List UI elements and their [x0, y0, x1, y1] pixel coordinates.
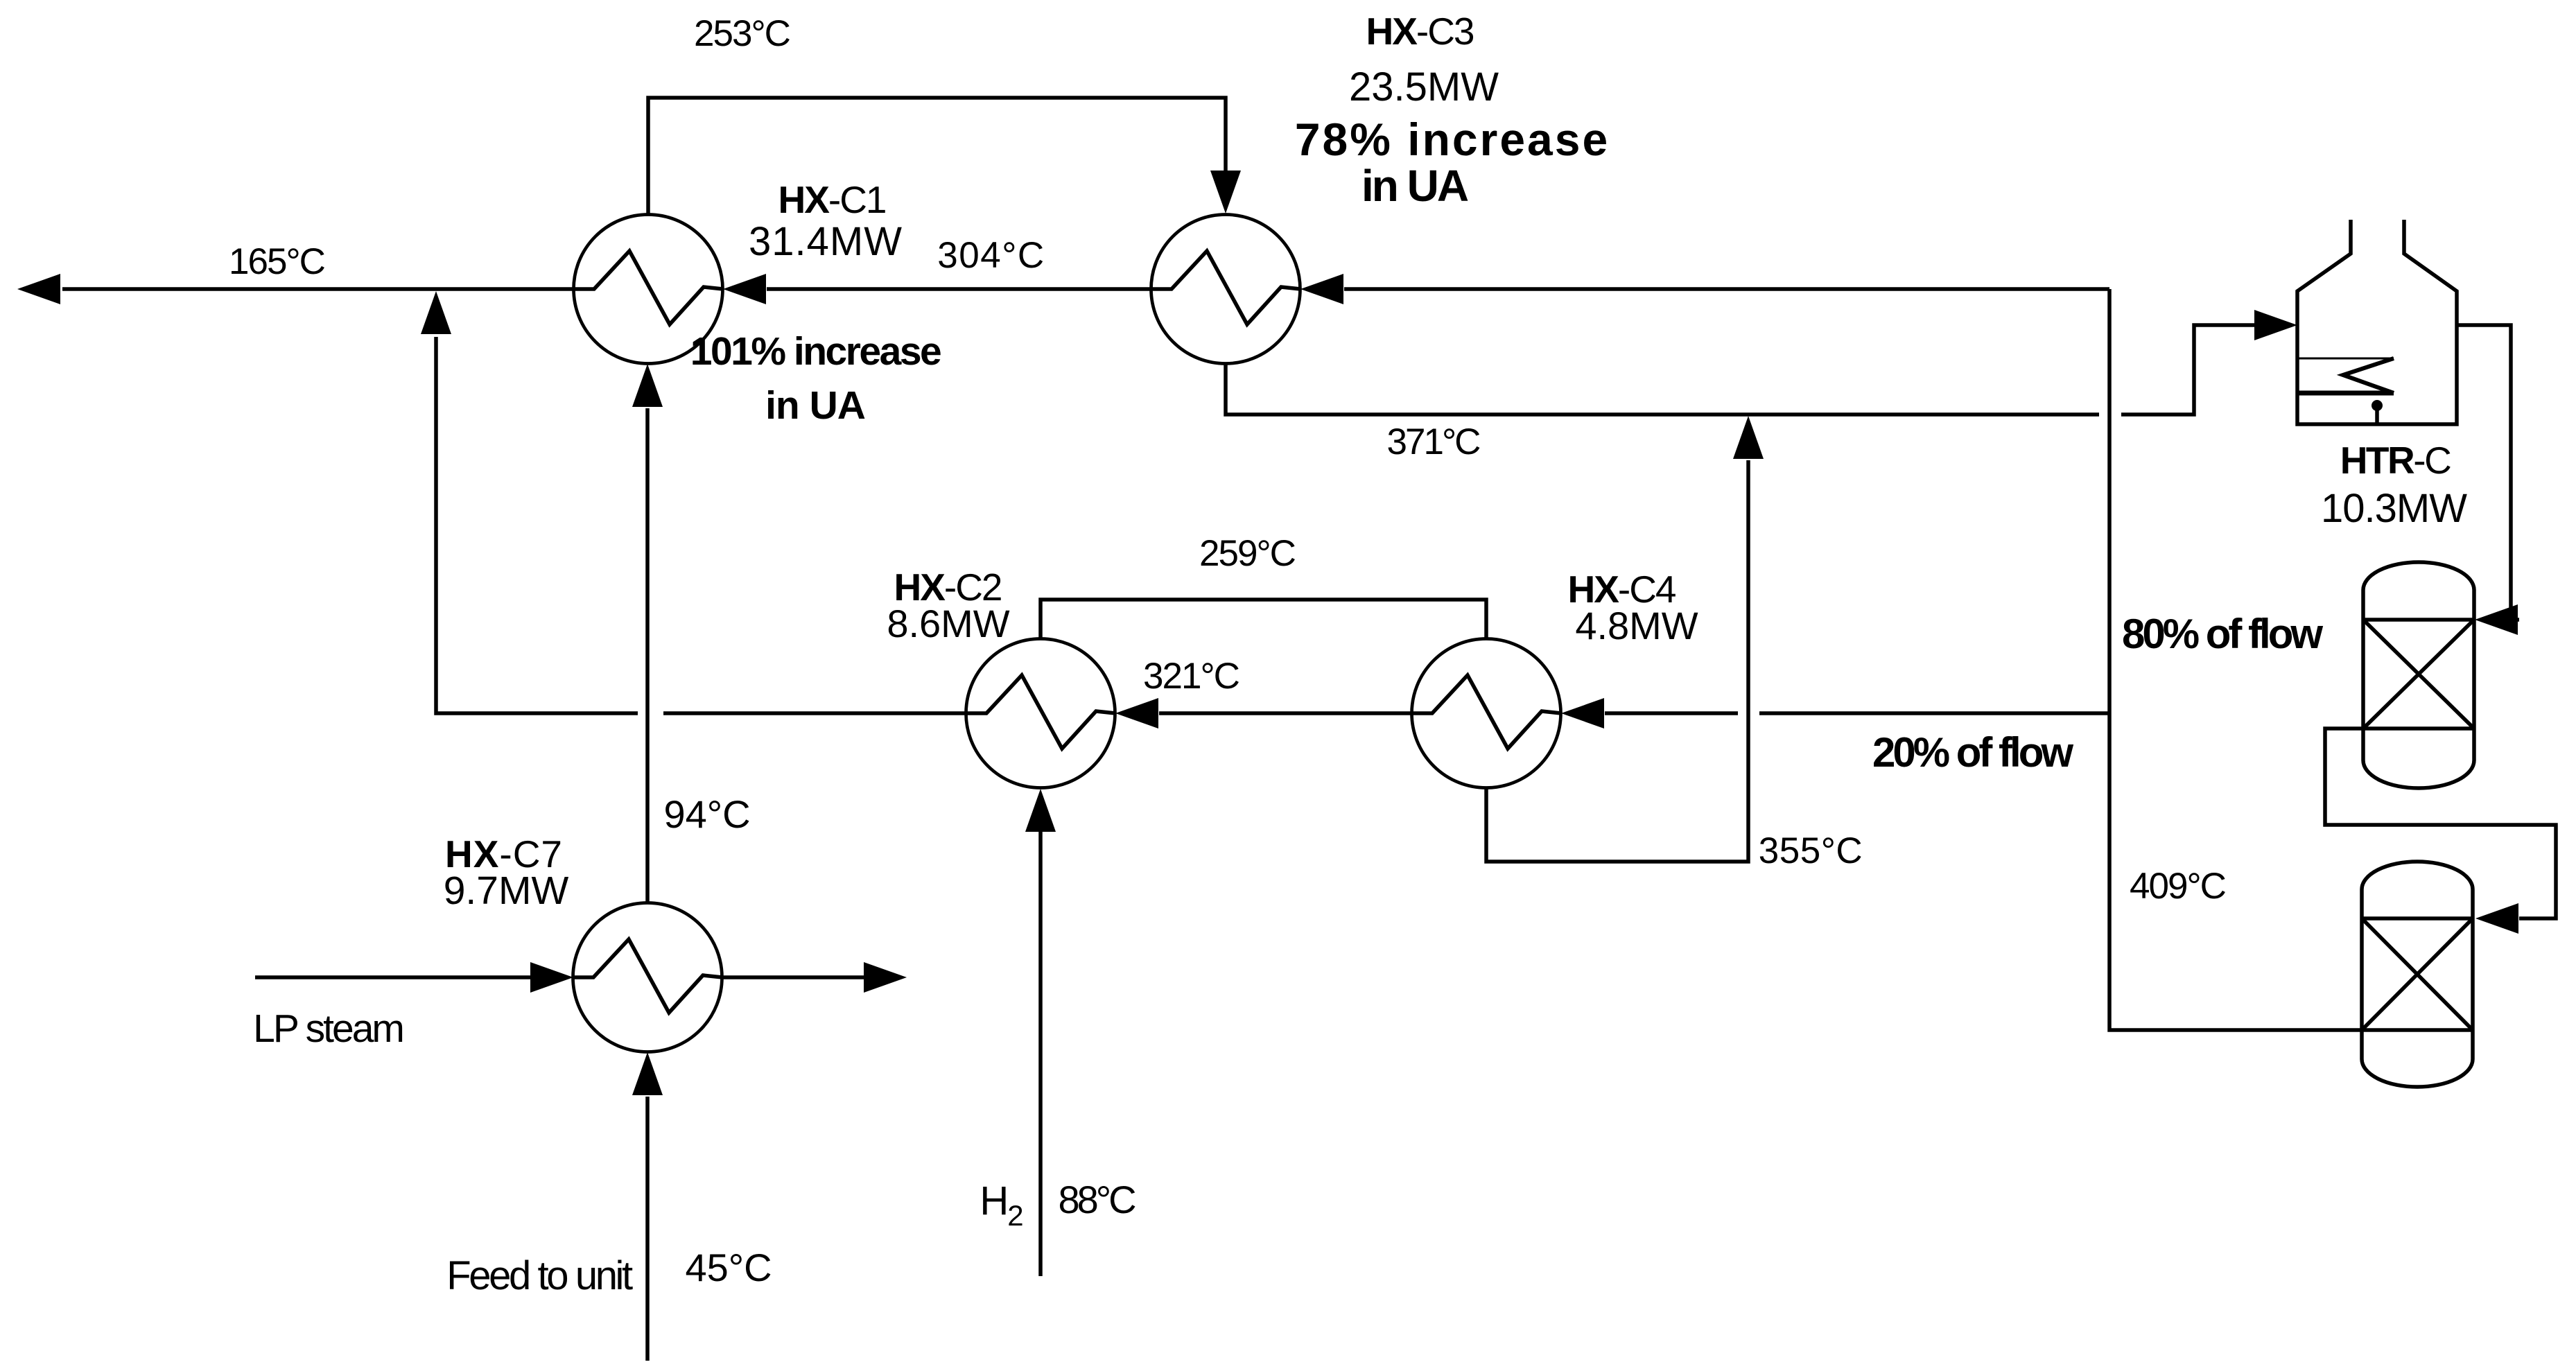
reactor R2 bed cross	[2362, 918, 2473, 1030]
label 101% increase in UA	[690, 329, 941, 428]
furnace HTR-C burner tube bottom	[2297, 391, 2394, 396]
label 321C	[1143, 656, 1239, 697]
label HTR-C	[2340, 439, 2451, 482]
furnace HTR-C burner tube top	[2297, 358, 2394, 360]
svg-text:88°C: 88°C	[1058, 1178, 1135, 1221]
arrowhead feed into HX-C1 bottom	[632, 364, 663, 407]
arrowhead into reactor R1	[2475, 604, 2518, 635]
label 45C	[685, 1246, 772, 1289]
arrowhead feed into HX-C7 bottom	[632, 1052, 663, 1095]
svg-text:HX-C1: HX-C1	[778, 178, 885, 221]
label 253C	[694, 13, 790, 54]
label 355C	[1759, 830, 1863, 871]
label 4.8MW	[1575, 604, 1698, 647]
wire HX-C7 outlet	[722, 975, 864, 979]
svg-text:31.4MW: 31.4MW	[749, 219, 903, 264]
svg-text:321°C: 321°C	[1143, 656, 1239, 697]
wire 165C exit line	[62, 287, 574, 291]
svg-text:9.7MW: 9.7MW	[444, 869, 569, 913]
label 20% of flow	[1872, 729, 2073, 776]
furnace HTR-C burner zigzag	[2343, 358, 2394, 393]
svg-text:101% increase: 101% increase	[690, 329, 941, 374]
heat exchanger HX-C2	[966, 639, 1116, 788]
label HX-C3	[1366, 10, 1473, 53]
svg-text:HX-C3: HX-C3	[1366, 10, 1473, 53]
label HX-C4	[1567, 568, 1675, 611]
arrowhead LP steam into HX-C7	[530, 962, 573, 993]
reactor R1 bed lines	[2363, 620, 2474, 729]
label 31.4MW	[749, 219, 903, 264]
svg-text:355°C: 355°C	[1759, 830, 1863, 871]
svg-text:409°C: 409°C	[2130, 866, 2226, 907]
label 259C	[1199, 533, 1296, 574]
svg-text:LP steam: LP steam	[253, 1006, 403, 1051]
label 304C	[937, 235, 1045, 276]
wire 321C line HX-C4 to HX-C2	[1159, 711, 1411, 715]
wire hot stream into HX-C3 right	[1344, 287, 2109, 291]
svg-text:in UA: in UA	[1361, 161, 1468, 211]
label 78% increase in UA	[1295, 114, 1610, 211]
svg-text:165°C: 165°C	[229, 241, 325, 282]
wire HX-C3 bottom to 371C line	[1226, 363, 2099, 415]
svg-text:in UA: in UA	[765, 383, 865, 428]
label 10.3MW	[2321, 486, 2467, 531]
svg-text:253°C: 253°C	[694, 13, 790, 54]
heat exchanger HX-C1	[574, 215, 724, 364]
wire feed between HX-C7 and HX-C1	[645, 408, 650, 903]
svg-text:80% of flow: 80% of flow	[2122, 611, 2323, 657]
label 371C	[1387, 421, 1481, 462]
label 8.6MW	[887, 602, 1009, 645]
svg-text:Feed to unit: Feed to unit	[446, 1253, 633, 1298]
heat exchanger HX-C7	[573, 903, 723, 1052]
wire 259C line HX-C2 to HX-C4	[1041, 600, 1486, 638]
label HX-C7	[445, 832, 563, 875]
label LP steam	[253, 1006, 403, 1051]
arrowhead into HX-C1 right	[723, 274, 766, 304]
label 88C	[1058, 1178, 1135, 1221]
label 23.5MW	[1349, 64, 1499, 110]
label HX-C1	[778, 178, 885, 221]
heat exchanger HX-C3	[1151, 215, 1301, 364]
furnace HTR-C pilot stem	[2375, 406, 2379, 424]
svg-text:78% increase: 78% increase	[1295, 114, 1610, 165]
arrowhead return riser join	[421, 291, 451, 334]
wire H2 feed	[1038, 832, 1043, 1276]
svg-text:20% of flow: 20% of flow	[1872, 729, 2073, 776]
label 80% of flow	[2122, 611, 2323, 657]
svg-text:23.5MW: 23.5MW	[1349, 64, 1499, 110]
wire HX-C4 bottom 355C to riser	[1486, 460, 1748, 862]
label HX-C2	[894, 566, 1001, 609]
svg-text:HTR-C: HTR-C	[2340, 439, 2451, 482]
arrowhead 165C exit	[17, 274, 60, 304]
wire HX-C2 left to return riser	[436, 337, 966, 713]
svg-text:259°C: 259°C	[1199, 533, 1296, 574]
wire feed to unit vertical	[645, 1097, 650, 1361]
label 9.7MW	[444, 869, 569, 913]
reactor R1 bed cross	[2363, 620, 2474, 729]
label 165C	[229, 241, 325, 282]
svg-text:10.3MW: 10.3MW	[2321, 486, 2467, 531]
arrowhead 355C join 371C line	[1733, 416, 1764, 459]
arrowhead HX-C7 outlet	[864, 962, 907, 993]
furnace HTR-C body	[2297, 220, 2457, 424]
arrowhead into HX-C2 right	[1115, 698, 1158, 729]
arrowhead H2 into HX-C2 bottom	[1025, 789, 1056, 832]
svg-text:371°C: 371°C	[1387, 421, 1481, 462]
arrowhead into HX-C4 right	[1561, 698, 1604, 729]
reactor R2 bed lines	[2362, 918, 2473, 1030]
heat exchanger HX-C4	[1412, 639, 1562, 788]
wire feed riser through HX-C1 top to HX-C3	[648, 98, 1226, 215]
arrowhead into HTR-C	[2254, 310, 2297, 340]
label Feed to unit	[446, 1253, 633, 1298]
svg-text:304°C: 304°C	[937, 235, 1045, 276]
svg-text:8.6MW: 8.6MW	[887, 602, 1009, 645]
svg-text:45°C: 45°C	[685, 1246, 772, 1289]
wire HTR-C outlet down to reactor R1	[2457, 325, 2519, 620]
reactor R1 vessel	[2363, 562, 2474, 788]
svg-text:4.8MW: 4.8MW	[1575, 604, 1698, 647]
reactor R2 vessel	[2362, 862, 2473, 1087]
wire 20% branch to HX-C4	[1605, 711, 2109, 715]
label 409C	[2130, 866, 2226, 907]
wire 304C line HX-C3 to HX-C1	[767, 287, 1151, 291]
label 94C	[663, 792, 750, 836]
arrowhead into reactor R2	[2475, 903, 2518, 934]
label H2	[980, 1178, 1022, 1232]
wire reactor R2 outlet to riser	[2109, 289, 2362, 1030]
wire LP steam inlet	[255, 975, 531, 979]
wire reactor R1 outlet to reactor R2	[2325, 729, 2556, 918]
svg-text:94°C: 94°C	[663, 792, 750, 836]
arrowhead into HX-C3 top	[1210, 171, 1241, 213]
arrowhead into HX-C3 right	[1300, 274, 1343, 304]
wire 371C line right of crossing to furnace	[2121, 325, 2254, 415]
furnace HTR-C pilot dot	[2372, 400, 2383, 411]
